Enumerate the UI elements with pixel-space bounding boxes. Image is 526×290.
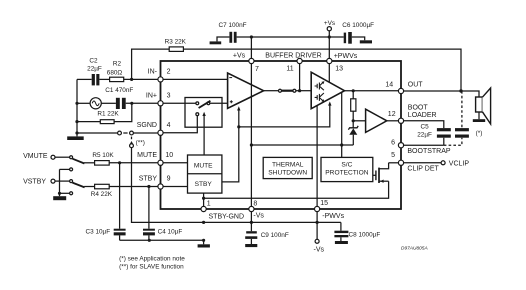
pin 10 label MUTE	[137, 152, 173, 159]
svg-text:12: 12	[388, 111, 396, 118]
svg-text:(*): (*)	[476, 130, 483, 137]
capacitor C6	[342, 22, 374, 44]
diode zener	[348, 121, 358, 145]
node rail-source	[75, 102, 78, 105]
pin 13 label +PWVs	[334, 53, 358, 73]
svg-text:8: 8	[253, 201, 257, 208]
node VSTBY terminal	[23, 178, 73, 185]
wire clip source run	[204, 181, 389, 198]
svg-text:BUFFER DRIVER: BUFFER DRIVER	[265, 53, 321, 60]
node VMUTE terminal	[23, 153, 73, 160]
svg-text:R4 22K: R4 22K	[91, 191, 113, 198]
svg-text:-PWVs: -PWVs	[322, 213, 344, 220]
svg-text:VCLIP: VCLIP	[449, 160, 470, 167]
svg-text:9: 9	[167, 176, 171, 183]
pin 11	[297, 58, 302, 63]
node VCLIP terminal	[401, 160, 469, 167]
svg-text:LOADER: LOADER	[408, 112, 437, 119]
svg-text:S/C: S/C	[341, 162, 352, 169]
capacitor optional slave	[455, 91, 469, 138]
wire pin7 pin8 column	[250, 61, 252, 209]
node +Vs rail junction	[328, 35, 331, 38]
ground C9	[245, 244, 257, 247]
switch box input	[185, 98, 222, 128]
pin 15 label -PWVs	[320, 200, 344, 220]
pin 12 label BOOT LOADER	[388, 104, 437, 119]
wire mute control riser	[202, 112, 205, 155]
svg-text:4: 4	[167, 122, 171, 129]
svg-text:D97AU805A: D97AU805A	[401, 246, 428, 252]
switch mute lever	[72, 159, 84, 164]
wire pin10 to box	[161, 162, 188, 164]
wire pin12 to C5	[401, 121, 444, 128]
svg-text:(*) see Application note: (*) see Application note	[119, 255, 185, 262]
box THERMAL SHUTDOWN	[263, 157, 312, 178]
resistor internal bias	[351, 91, 356, 121]
node IN+ junction	[130, 102, 133, 105]
node IN- junction	[130, 78, 133, 81]
svg-text:SGND: SGND	[137, 122, 157, 129]
svg-text:R5 10K: R5 10K	[92, 152, 114, 159]
wire pin1 riser	[203, 193, 205, 209]
pin 12	[398, 118, 403, 123]
ground C6	[352, 37, 372, 43]
op-amp power stage U1b	[311, 72, 344, 109]
ground input	[67, 136, 84, 140]
svg-text:C9 100nF: C9 100nF	[261, 232, 289, 239]
switch stby lever	[72, 183, 84, 188]
svg-text:+PWVs: +PWVs	[334, 53, 358, 60]
footnotes	[119, 255, 185, 270]
wire amp output to pin14	[345, 90, 402, 92]
wire stby branch to power amp	[239, 101, 332, 127]
svg-text:C5: C5	[421, 124, 430, 131]
ground C8	[335, 241, 348, 244]
capacitor C9	[245, 231, 289, 244]
wire pin7 riser	[250, 37, 252, 61]
svg-text:7: 7	[255, 66, 259, 73]
ground C7	[210, 37, 230, 44]
svg-text:STBY-GND: STBY-GND	[209, 213, 245, 220]
pin 9	[158, 184, 163, 189]
pin 7 label +Vs	[233, 53, 259, 73]
svg-text:MUTE: MUTE	[194, 163, 213, 170]
resistor R3	[165, 38, 187, 51]
svg-text:15: 15	[320, 200, 328, 207]
wire pin8 column down	[250, 209, 252, 231]
node clip source junction	[202, 197, 205, 200]
wire slave run to bottom rail	[132, 148, 341, 223]
node R4-C4 junction	[147, 185, 150, 188]
wire pin15 column internal	[316, 106, 318, 209]
pin 8	[249, 206, 254, 211]
node buffer driver junction	[298, 89, 301, 92]
svg-text:C4 10µF: C4 10µF	[158, 229, 183, 236]
svg-text:C8 1000µF: C8 1000µF	[349, 231, 381, 238]
node C4 ground junction	[148, 239, 151, 242]
node C7 rail junction	[250, 35, 253, 38]
wire pin5 to transistor	[389, 162, 401, 164]
wire left input rail	[76, 79, 78, 136]
pin 14	[398, 88, 403, 93]
node zener junction	[352, 119, 355, 122]
pin 2	[158, 77, 163, 82]
wire bottom ground run	[120, 239, 204, 241]
box SC PROTECTION	[321, 157, 373, 181]
svg-text:6: 6	[391, 140, 395, 147]
wire sc sense column	[341, 92, 343, 157]
svg-text:R1 22K: R1 22K	[97, 111, 119, 118]
wire stby control riser	[222, 106, 241, 182]
svg-text:5: 5	[391, 152, 395, 159]
svg-text:R3 22K: R3 22K	[165, 38, 187, 45]
wire pin9 to box	[161, 186, 188, 188]
svg-text:-Vs: -Vs	[253, 213, 264, 220]
wire pin15 down	[316, 209, 318, 239]
pin 10	[158, 160, 163, 165]
box MUTE STBY	[188, 155, 222, 193]
pin circles	[158, 58, 404, 211]
svg-text:SHUTDOWN: SHUTDOWN	[268, 169, 307, 176]
node -Vs terminal	[314, 239, 325, 253]
svg-text:22µF: 22µF	[87, 66, 102, 73]
node R5-C3 junction	[118, 161, 121, 164]
svg-text:C6 1000µF: C6 1000µF	[342, 22, 374, 29]
speaker load	[473, 88, 491, 137]
wire feedback riser	[132, 49, 170, 79]
pin 11 label BUFFER DRIVER	[265, 53, 321, 73]
svg-text:3: 3	[167, 92, 171, 99]
svg-text:R2: R2	[113, 60, 122, 67]
svg-text:BOOTSTRAP: BOOTSTRAP	[407, 148, 451, 155]
svg-text:22µF: 22µF	[417, 131, 432, 138]
op-amp boot loader U1c	[353, 109, 401, 132]
svg-text:IN-: IN-	[148, 69, 158, 76]
pin 4	[158, 130, 163, 135]
svg-text:VSTBY: VSTBY	[23, 178, 46, 185]
wire pin6 bootstrap	[401, 144, 444, 146]
capacitor C2	[77, 58, 102, 86]
transistor clip detect Q1	[373, 163, 389, 183]
source generator	[77, 98, 116, 109]
pin 2 label IN-	[148, 69, 171, 76]
wire switch ground column	[58, 168, 73, 196]
node output junction internal	[352, 89, 355, 92]
svg-text:10: 10	[165, 152, 173, 159]
svg-text:IN+: IN+	[146, 92, 157, 99]
svg-text:OUT: OUT	[408, 81, 424, 88]
svg-text:14: 14	[385, 82, 393, 89]
pin 3 label IN+	[146, 92, 171, 99]
svg-text:680Ω: 680Ω	[107, 69, 123, 76]
svg-text:(**): (**)	[136, 139, 145, 146]
svg-text:+Vs: +Vs	[233, 53, 246, 60]
wire dashed bootstrap link	[444, 138, 462, 146]
svg-text:VMUTE: VMUTE	[23, 153, 48, 160]
capacitor C8	[334, 222, 380, 241]
wire pin13 riser internal	[328, 61, 330, 82]
node stby branch junction	[237, 125, 240, 128]
pin 1 label STBY-GND	[207, 200, 244, 220]
svg-text:THERMAL: THERMAL	[272, 162, 304, 169]
pin 14 label OUT	[385, 81, 423, 88]
svg-text:STBY: STBY	[139, 176, 158, 183]
IC TDA7296 body	[161, 61, 402, 209]
pin 6	[398, 143, 403, 148]
pin 1	[201, 206, 206, 211]
wire pin11 riser	[299, 61, 301, 91]
capacitor C5	[417, 124, 451, 146]
node sc sense junction	[340, 143, 343, 146]
wire -Vs rail dots	[202, 221, 319, 224]
node bias rail junction	[250, 143, 253, 146]
pin 5 label CLIP DET	[391, 152, 439, 173]
wire pin2 to amp	[161, 78, 228, 80]
pin 3	[158, 101, 163, 106]
capacitor C7	[219, 22, 247, 43]
svg-text:MUTE: MUTE	[137, 152, 157, 159]
svg-text:-Vs: -Vs	[314, 247, 325, 254]
node slave terminal	[130, 137, 145, 148]
pin 15	[315, 206, 320, 211]
wire OUT run	[401, 91, 479, 97]
resistor R2	[99, 60, 160, 81]
svg-text:+Vs: +Vs	[324, 20, 335, 27]
ground switch column	[53, 196, 66, 200]
pin 13	[327, 58, 332, 63]
svg-text:PROTECTION: PROTECTION	[325, 169, 368, 176]
pin 7	[249, 58, 254, 63]
svg-text:C1 470nF: C1 470nF	[105, 87, 133, 94]
capacitor C3	[86, 163, 126, 241]
pin 6 label BOOTSTRAP	[391, 140, 451, 155]
svg-text:STBY: STBY	[195, 181, 213, 188]
wire pin3 to switch	[161, 102, 228, 104]
pin 5	[398, 160, 403, 165]
node +Vs terminal	[324, 20, 335, 61]
switch input mute	[264, 89, 312, 92]
resistor R1	[77, 103, 132, 123]
node rail-SGND	[75, 131, 78, 134]
svg-text:(**) for SLAVE function: (**) for SLAVE function	[119, 263, 184, 270]
wire feedback top run	[183, 49, 461, 91]
svg-text:13: 13	[335, 66, 343, 73]
wire pin4 sgnd to switch	[161, 116, 198, 133]
node OUT feedback junction	[459, 89, 462, 92]
resistor R5	[84, 152, 161, 165]
pin 4 label SGND	[137, 122, 171, 129]
svg-text:C3 10µF: C3 10µF	[86, 228, 111, 235]
svg-text:2: 2	[167, 69, 171, 76]
svg-text:BOOT: BOOT	[408, 104, 429, 111]
capacitor C1	[105, 87, 160, 109]
ground main	[198, 240, 210, 247]
svg-text:1: 1	[207, 200, 211, 207]
op-amp input stage U1a	[228, 73, 264, 108]
wire SGND row	[77, 131, 161, 135]
pin 9 label STBY	[139, 176, 171, 183]
svg-text:11: 11	[286, 66, 293, 73]
node rail-R1	[75, 120, 78, 123]
node pin1 ground junction	[202, 239, 205, 242]
resistor R4	[84, 184, 160, 198]
svg-text:C2: C2	[89, 58, 98, 65]
capacitor C4	[143, 187, 182, 241]
svg-text:CLIP DET: CLIP DET	[407, 166, 439, 173]
wire +Vs top rail	[237, 36, 344, 38]
svg-text:C7 100nF: C7 100nF	[219, 22, 247, 29]
wire bias rail to zener	[251, 144, 353, 146]
pin 8 label -Vs	[253, 201, 264, 220]
